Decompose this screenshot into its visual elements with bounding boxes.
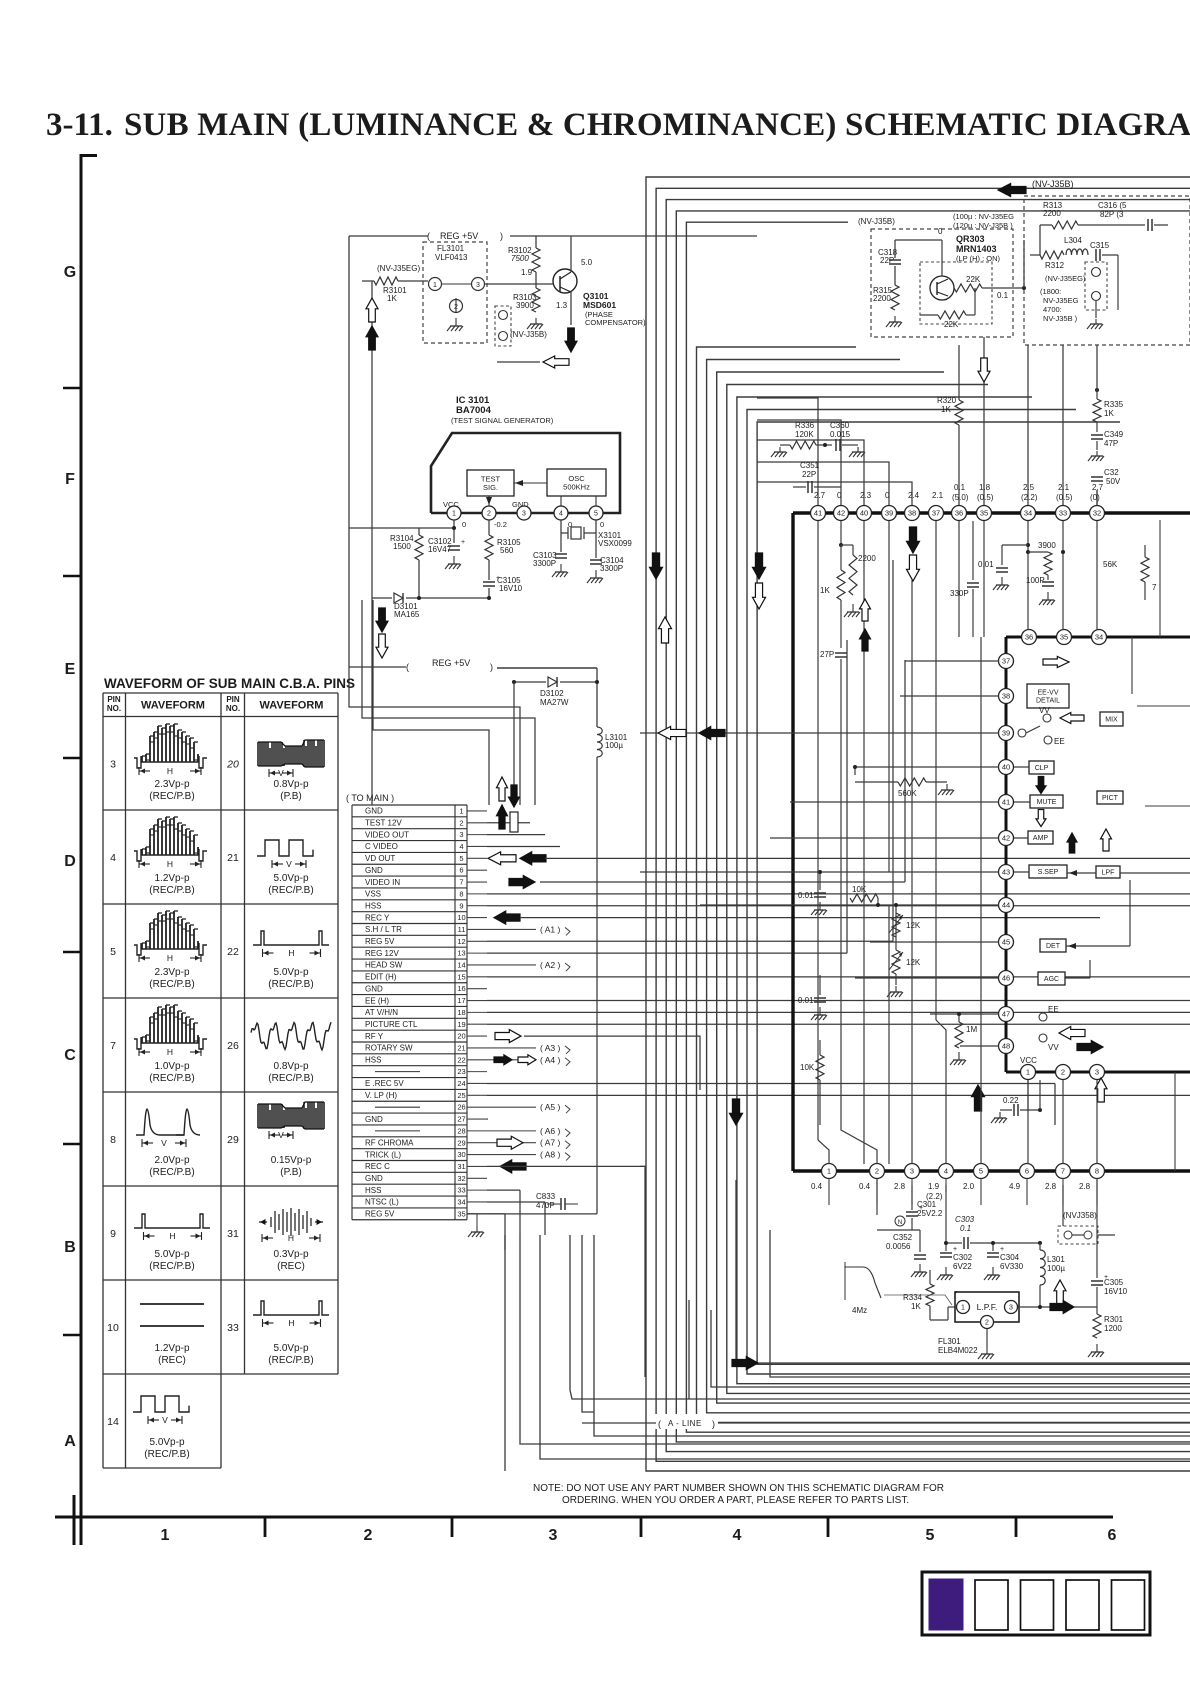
svg-text:56K: 56K [1103,560,1118,569]
svg-text:1.9: 1.9 [521,268,533,277]
svg-text:36: 36 [955,509,963,518]
svg-text:+: + [953,1246,957,1253]
svg-text:E: E [65,661,76,678]
svg-text:NOTE: DO NOT USE ANY PART NUM: NOTE: DO NOT USE ANY PART NUMBER SHOWN O… [533,1483,944,1494]
svg-text:( A2 ): ( A2 ) [540,960,560,970]
svg-text:GND: GND [365,807,383,816]
svg-text:(NV-J35B): (NV-J35B) [858,217,895,226]
svg-text:28: 28 [457,1126,465,1135]
svg-text:8: 8 [1095,1167,1099,1176]
svg-text:D: D [64,853,76,870]
svg-text:EE: EE [1054,737,1065,746]
svg-text:0.01: 0.01 [978,560,994,569]
svg-text:LPF: LPF [1102,870,1115,877]
svg-text:47P: 47P [1104,439,1118,448]
svg-text:100P: 100P [1026,576,1045,585]
svg-text:2.3: 2.3 [860,491,872,500]
svg-text:(REC/P.B): (REC/P.B) [149,885,194,896]
svg-text:45: 45 [1002,938,1010,947]
svg-text:MRN1403: MRN1403 [956,244,997,254]
svg-text:40: 40 [860,509,868,518]
svg-text:2200: 2200 [1043,209,1061,218]
svg-text:1.9: 1.9 [928,1182,940,1191]
svg-text:FL301: FL301 [938,1337,961,1346]
svg-text:MSD601: MSD601 [583,300,616,310]
svg-text:1: 1 [433,282,437,289]
svg-text:V. LP (H): V. LP (H) [365,1091,397,1100]
svg-text:C305: C305 [1104,1278,1124,1287]
svg-text:( A3 ): ( A3 ) [540,1043,560,1053]
svg-text:5: 5 [110,946,116,958]
svg-text:41: 41 [1002,798,1010,807]
svg-text:SIG.: SIG. [483,483,498,492]
svg-text:C303: C303 [955,1215,975,1224]
svg-text:(TEST SIGNAL GENERATOR): (TEST SIGNAL GENERATOR) [451,416,554,425]
svg-text:VV: VV [1039,706,1050,715]
4Mz response curve [844,1262,846,1300]
svg-text:C833: C833 [536,1192,556,1201]
bottom left wires [570,1235,1190,1399]
svg-text:(REC/P.B): (REC/P.B) [149,1167,194,1178]
svg-text:1.2Vp-p: 1.2Vp-p [154,1343,189,1354]
svg-text:14: 14 [107,1416,119,1428]
svg-text:8: 8 [459,889,463,898]
svg-text:23: 23 [457,1067,465,1076]
svg-text:(P.B): (P.B) [280,791,302,802]
svg-text:22: 22 [227,946,239,958]
svg-text:0.4: 0.4 [859,1182,871,1191]
svg-text:1: 1 [961,1305,965,1312]
svg-text:18: 18 [457,1008,465,1017]
svg-text:16: 16 [457,984,465,993]
svg-text:H: H [288,948,294,958]
svg-text:VV: VV [1048,1043,1059,1052]
svg-text:27P: 27P [820,650,834,659]
svg-text:15: 15 [457,972,465,981]
arrows inside IC top [907,527,920,553]
svg-text:34: 34 [1095,633,1103,642]
svg-text:COMPENSATOR): COMPENSATOR) [585,318,646,327]
svg-text:1K: 1K [387,294,397,303]
svg-text:46: 46 [1002,974,1010,983]
svg-text:29: 29 [457,1138,465,1147]
outer bottom pins [822,1164,837,1179]
svg-text:C351: C351 [800,461,820,470]
svg-text:5: 5 [926,1527,935,1544]
svg-text:ORDERING. WHEN YOU ORDER A P: ORDERING. WHEN YOU ORDER A PART, PLEASE … [562,1495,909,1506]
svg-text:NV-J35B ): NV-J35B ) [1043,314,1078,323]
left ruler [80,154,83,1545]
svg-text:D3102: D3102 [540,689,564,698]
svg-text:(REC/P.B): (REC/P.B) [149,791,194,802]
svg-text:(1800:: (1800: [1040,287,1061,296]
svg-text:(120µ : NV-J35B ): (120µ : NV-J35B ) [953,221,1013,230]
svg-text:GND: GND [365,866,383,875]
svg-text:( A5 ): ( A5 ) [540,1102,560,1112]
svg-text:C32: C32 [1104,468,1119,477]
svg-text:33: 33 [457,1186,465,1195]
svg-text:8: 8 [110,1134,116,1146]
svg-text:NO.: NO. [226,704,240,713]
svg-text:2.3Vp-p: 2.3Vp-p [154,779,189,790]
svg-text:3: 3 [1009,1305,1013,1312]
svg-text:32: 32 [1093,509,1101,518]
svg-text:EE (H): EE (H) [365,996,389,1005]
svg-text:(NV-J35EG): (NV-J35EG) [377,264,420,273]
svg-text:AMP: AMP [1033,835,1049,842]
svg-text:0.1: 0.1 [954,483,966,492]
svg-text:(REC/P.B): (REC/P.B) [268,979,313,990]
svg-text:ROTARY SW: ROTARY SW [365,1044,413,1053]
svg-text:27: 27 [457,1115,465,1124]
svg-text:C349: C349 [1104,430,1124,439]
svg-text:2.8: 2.8 [1079,1182,1091,1191]
svg-text:L304: L304 [1064,236,1082,245]
svg-text:TEST 12V: TEST 12V [365,819,402,828]
svg-text:34: 34 [1024,509,1032,518]
connector pin pill [510,812,518,832]
svg-text:560: 560 [500,546,514,555]
svg-text:B: B [64,1239,76,1256]
svg-text:22P: 22P [802,470,816,479]
svg-text:REC Y: REC Y [365,913,390,922]
svg-text:1.8: 1.8 [979,483,991,492]
svg-text:3-11.: 3-11. [46,107,113,143]
svg-text:35: 35 [1060,633,1068,642]
svg-text:9: 9 [110,1228,116,1240]
svg-text:R312: R312 [1045,261,1065,270]
wire maze nested loops [646,177,1190,1471]
svg-text:32: 32 [457,1174,465,1183]
svg-text:C: C [64,1047,76,1064]
L3101 [597,727,602,757]
svg-text:A: A [64,1433,76,1450]
svg-text:-0.2: -0.2 [494,520,507,529]
svg-text:6: 6 [459,866,463,875]
svg-text:0.15Vp-p: 0.15Vp-p [271,1155,312,1166]
svg-text:REG +5V: REG +5V [440,231,478,241]
svg-text:REG 12V: REG 12V [365,949,399,958]
arrows above connector [497,777,508,801]
svg-text:HSS: HSS [365,1186,381,1195]
svg-text:33: 33 [227,1322,239,1334]
svg-text:2: 2 [1061,1068,1065,1077]
svg-text:S.H / L TR: S.H / L TR [365,925,402,934]
svg-text:FL3101: FL3101 [437,244,465,253]
svg-text:34: 34 [457,1198,465,1207]
svg-text:10K: 10K [800,1063,815,1072]
svg-text:82P (3: 82P (3 [1100,210,1124,219]
svg-text:11: 11 [458,925,466,934]
svg-text:(NV-J35B): (NV-J35B) [1032,179,1074,189]
svg-text:E .REC 5V: E .REC 5V [365,1079,404,1088]
svg-text:120K: 120K [795,430,814,439]
svg-text:( A6 ): ( A6 ) [540,1126,560,1136]
svg-text:(0.5): (0.5) [1056,493,1073,502]
svg-text:2: 2 [875,1167,879,1176]
svg-text:MA27W: MA27W [540,698,569,707]
svg-text:WAVEFORM OF SUB MAIN C.B.A. PI: WAVEFORM OF SUB MAIN C.B.A. PINS [104,676,355,691]
svg-text:VCC: VCC [1020,1056,1037,1065]
svg-text:4Mz: 4Mz [852,1306,867,1315]
svg-text:37: 37 [932,509,940,518]
svg-text:0: 0 [462,520,466,529]
svg-text:PICTURE CTL: PICTURE CTL [365,1020,418,1029]
svg-text:VLF0413: VLF0413 [435,253,468,262]
svg-text:43: 43 [1002,868,1010,877]
svg-text:( A7 ): ( A7 ) [540,1138,560,1148]
svg-text:(P.B): (P.B) [280,1167,302,1178]
svg-text:3: 3 [459,830,463,839]
svg-text:L301: L301 [1047,1255,1065,1264]
svg-text:C316 (5: C316 (5 [1098,201,1127,210]
svg-text:(: ( [427,231,430,241]
svg-text:AT V/H/N: AT V/H/N [365,1008,398,1017]
svg-text:0.3Vp-p: 0.3Vp-p [273,1249,308,1260]
svg-text:5.0Vp-p: 5.0Vp-p [273,1343,308,1354]
svg-text:6: 6 [1025,1167,1029,1176]
svg-text:42: 42 [1002,834,1010,843]
svg-text:R301: R301 [1104,1315,1124,1324]
svg-text:1: 1 [161,1527,170,1544]
svg-text:6V330: 6V330 [1000,1262,1024,1271]
svg-text:3300P: 3300P [533,559,556,568]
svg-text:3900: 3900 [1038,541,1056,550]
svg-text:GND: GND [365,984,383,993]
inner top pins [1022,630,1037,645]
svg-text:500KHz: 500KHz [563,482,590,491]
svg-text:35: 35 [980,509,988,518]
svg-text:0.22: 0.22 [1003,1096,1019,1105]
svg-text:30: 30 [457,1150,465,1159]
svg-text:10K: 10K [852,885,867,894]
svg-text:560K: 560K [898,789,917,798]
svg-text:20: 20 [226,758,239,770]
svg-text:7: 7 [1152,583,1157,592]
verticals above top pins [757,398,818,505]
svg-text:1: 1 [459,806,463,815]
svg-text:20: 20 [457,1032,465,1041]
svg-text:VIDEO IN: VIDEO IN [365,878,400,887]
resistor 56K [1141,557,1149,582]
svg-text:V: V [161,1138,167,1148]
svg-text:5: 5 [594,511,598,518]
svg-text:22: 22 [457,1055,465,1064]
svg-text:36: 36 [1025,633,1033,642]
svg-text:21: 21 [457,1043,465,1052]
svg-text:100µ: 100µ [1047,1264,1065,1273]
svg-text:0.01: 0.01 [798,891,814,900]
svg-text:+: + [1000,1246,1004,1253]
svg-text:1: 1 [1026,1068,1030,1077]
svg-text:2.1: 2.1 [1058,483,1070,492]
R3101 [362,280,374,282]
svg-text:3: 3 [476,282,480,289]
svg-text:0.1: 0.1 [997,291,1009,300]
svg-text:33: 33 [1059,509,1067,518]
svg-text:5.0: 5.0 [581,258,593,267]
RF dashed section [1024,196,1190,345]
svg-text:35: 35 [457,1209,465,1218]
X3101 crystal [561,532,568,534]
svg-text:BA7004: BA7004 [456,405,492,416]
svg-text:2: 2 [487,511,491,518]
left pins of inner block [999,654,1014,669]
svg-text:C302: C302 [953,1253,973,1262]
svg-text:16V10: 16V10 [1104,1287,1128,1296]
connector row wires to right [487,822,530,824]
svg-text:( TO MAIN ): ( TO MAIN ) [346,793,394,803]
svg-text:3: 3 [1095,1068,1099,1077]
svg-text:2.7: 2.7 [814,491,826,500]
svg-text:AGC: AGC [1044,976,1059,983]
svg-text:WAVEFORM: WAVEFORM [141,700,205,712]
svg-text:( A1 ): ( A1 ) [540,924,560,934]
svg-text:26: 26 [227,1040,239,1052]
svg-text:2.4: 2.4 [908,491,920,500]
svg-text:(LP (H) : ON): (LP (H) : ON) [956,254,1001,263]
svg-text:(100µ : NV-J35EG: (100µ : NV-J35EG [953,212,1014,221]
svg-text:14: 14 [457,961,465,970]
QR303 block [871,229,1013,337]
svg-text:R336: R336 [795,421,815,430]
svg-text:1: 1 [827,1167,831,1176]
svg-text:0.8Vp-p: 0.8Vp-p [273,1061,308,1072]
IC301 main IC outer boundary [793,511,1190,514]
svg-text:(NV-J35EG): (NV-J35EG) [1045,274,1086,283]
svg-text:GND: GND [365,1115,383,1124]
svg-text:L.P.F.: L.P.F. [977,1302,998,1312]
svg-text:25: 25 [457,1091,465,1100]
svg-text:EE-VV: EE-VV [1037,690,1058,697]
svg-text:12K: 12K [906,921,921,930]
svg-text:16V10: 16V10 [499,584,523,593]
capacitor C3102 [448,545,460,547]
svg-text:2200: 2200 [858,554,876,563]
svg-text:2.0Vp-p: 2.0Vp-p [154,1155,189,1166]
svg-text:29: 29 [227,1134,239,1146]
R312 L304 C315 [1030,254,1040,256]
svg-text:0: 0 [938,227,943,236]
svg-text:VIDEO OUT: VIDEO OUT [365,830,409,839]
svg-text:RF Y: RF Y [365,1032,384,1041]
svg-text:7: 7 [459,878,463,887]
svg-text:22K: 22K [966,275,981,284]
svg-text:F: F [65,471,75,488]
svg-text:37: 37 [1002,657,1010,666]
svg-text:31: 31 [457,1162,465,1171]
svg-text:C VIDEO: C VIDEO [365,842,398,851]
svg-text:2: 2 [364,1527,373,1544]
IC301 inner boundary [1006,636,1190,639]
svg-text:HSS: HSS [365,901,381,910]
svg-text:REG 5V: REG 5V [365,1210,395,1219]
svg-text:(REC/P.B): (REC/P.B) [268,1355,313,1366]
560K resistor [854,767,856,775]
arrows near MUTE/AMP [1036,777,1046,794]
svg-text:GND: GND [365,1174,383,1183]
R335 C349 chain [1095,388,1099,392]
svg-text:VSS: VSS [365,890,381,899]
svg-text:100µ: 100µ [605,741,623,750]
svg-text:7: 7 [110,1040,116,1052]
svg-text:( A4 ): ( A4 ) [540,1055,560,1065]
svg-text:2: 2 [459,818,463,827]
C323 diode cap at right [1091,476,1103,478]
FL301 LPF [955,1292,1019,1322]
svg-text:1500: 1500 [393,542,411,551]
REG +5V rail [349,235,428,237]
svg-text:NTSC (L): NTSC (L) [365,1198,399,1207]
svg-text:17: 17 [457,996,465,1005]
svg-text:HSS: HSS [365,1056,381,1065]
svg-text:RF CHROMA: RF CHROMA [365,1138,414,1147]
svg-text:(REC/P.B): (REC/P.B) [144,1449,189,1460]
svg-text:7500: 7500 [511,254,529,263]
svg-text:(REC): (REC) [158,1355,186,1366]
svg-text:QR303: QR303 [956,234,985,244]
S.SEP to LPF link [1067,872,1096,874]
VV EE circles [1043,714,1051,722]
svg-text:WAVEFORM: WAVEFORM [260,700,324,712]
svg-text:41: 41 [814,509,822,518]
svg-text:V: V [162,1415,168,1425]
svg-text:PICT: PICT [1102,795,1119,802]
svg-text:1200: 1200 [1104,1324,1122,1333]
svg-text:5.0Vp-p: 5.0Vp-p [273,967,308,978]
svg-text:2.1: 2.1 [932,491,944,500]
svg-text:24: 24 [457,1079,465,1088]
svg-text:REC C: REC C [365,1162,390,1171]
svg-text:V: V [278,768,284,778]
svg-text:C352: C352 [893,1233,913,1242]
svg-text:CLP: CLP [1035,765,1049,772]
svg-text:DETAIL: DETAIL [1036,698,1060,705]
left pin wires [905,660,999,662]
Q3101 transistor [553,269,577,293]
svg-text:2.8: 2.8 [894,1182,906,1191]
svg-text:): ) [712,1419,715,1429]
svg-text:10: 10 [457,913,465,922]
svg-text:H: H [288,1233,294,1243]
svg-text:0.4: 0.4 [811,1182,823,1191]
svg-text:5.0Vp-p: 5.0Vp-p [149,1437,184,1448]
svg-text:42: 42 [837,509,845,518]
svg-text:(2.2): (2.2) [1021,493,1038,502]
svg-text:2.0: 2.0 [963,1182,975,1191]
svg-text:1K: 1K [820,586,830,595]
svg-text:1K: 1K [911,1302,921,1311]
svg-text:(: ( [658,1419,661,1429]
svg-text:3: 3 [110,758,116,770]
bottom circuit section [828,1178,830,1205]
svg-text:5: 5 [459,854,463,863]
svg-text:PIN: PIN [226,695,240,704]
svg-text:(REC/P.B): (REC/P.B) [268,1073,313,1084]
svg-text:C304: C304 [1000,1253,1020,1262]
svg-text:(5.0): (5.0) [952,493,969,502]
svg-text:R334: R334 [903,1293,923,1302]
svg-text:4: 4 [110,852,116,864]
internal components below top edge [840,521,842,545]
svg-text:(NV-J35B): (NV-J35B) [510,330,547,339]
svg-text:HEAD SW: HEAD SW [365,961,403,970]
svg-text:V: V [278,1130,284,1140]
svg-text:1.0Vp-p: 1.0Vp-p [154,1061,189,1072]
function boxes inside IC [1027,684,1069,708]
svg-text:47: 47 [1002,1010,1010,1019]
svg-text:1: 1 [452,511,456,518]
